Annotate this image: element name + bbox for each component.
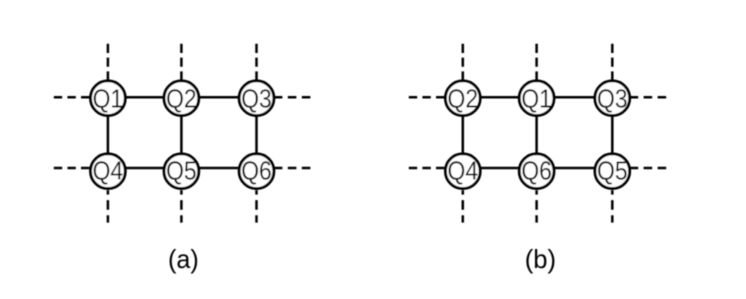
node b:Q1 (qubit circle)	[519, 81, 554, 116]
svg-text:Q4: Q4	[93, 156, 124, 186]
dashed stub below a:Q4	[107, 190, 110, 222]
dashed stub above a:Q2	[180, 44, 183, 81]
svg-text:(b): (b)	[525, 244, 556, 274]
svg-text:Q3: Q3	[597, 84, 628, 114]
node a:Q1 (qubit circle)	[91, 81, 126, 116]
wire b:Q4-Q6	[463, 167, 537, 170]
node a:Q5 (qubit circle)	[164, 154, 199, 189]
svg-text:Q6: Q6	[521, 156, 552, 186]
svg-text:Q2: Q2	[448, 84, 479, 114]
wire a:Q2-Q5	[180, 98, 183, 171]
node b:Q6 (qubit circle)	[519, 154, 554, 189]
svg-text:Q1: Q1	[93, 84, 124, 114]
node b:Q3 (qubit circle)	[595, 81, 630, 116]
dashed stub left of b:Q2	[409, 96, 447, 99]
svg-text:Q5: Q5	[597, 156, 628, 186]
wire a:Q5-Q6	[181, 167, 256, 170]
dashed stub right of a:Q3	[274, 96, 312, 99]
wire b:Q2-Q1	[463, 96, 537, 99]
dashed stub above a:Q1	[107, 44, 110, 81]
dashed stub right of a:Q6	[274, 167, 312, 170]
dashed stub left of a:Q4	[54, 167, 92, 170]
svg-text:Q6: Q6	[241, 156, 272, 186]
svg-text:Q1: Q1	[521, 84, 552, 114]
wire a:Q1-Q4	[107, 98, 110, 171]
dashed stub below a:Q5	[180, 190, 183, 222]
dashed stub above b:Q1	[535, 44, 538, 81]
dashed stub left of a:Q1	[54, 96, 92, 99]
node a:Q6 (qubit circle)	[239, 154, 274, 189]
node b:Q2 (qubit circle)	[445, 81, 480, 116]
wire b:Q2-Q4	[462, 98, 465, 171]
dashed stub above a:Q3	[255, 44, 258, 81]
dashed stub above b:Q2	[462, 44, 465, 81]
node a:Q3 (qubit circle)	[239, 81, 274, 116]
node b:Q5 (qubit circle)	[595, 154, 630, 189]
dashed stub below a:Q6	[255, 190, 258, 222]
wire b:Q1-Q6	[535, 98, 538, 171]
svg-text:Q5: Q5	[166, 156, 197, 186]
dashed stub below b:Q5	[611, 190, 614, 222]
dashed stub right of b:Q5	[630, 167, 668, 170]
node a:Q2 (qubit circle)	[164, 81, 199, 116]
dashed stub below b:Q6	[535, 190, 538, 222]
wire b:Q1-Q3	[537, 96, 613, 99]
wire a:Q1-Q2	[108, 96, 181, 99]
wire b:Q3-Q5	[611, 98, 614, 171]
svg-text:Q3: Q3	[241, 84, 272, 114]
node a:Q4 (qubit circle)	[91, 154, 126, 189]
svg-text:(a): (a)	[168, 244, 199, 274]
dashed stub above b:Q3	[611, 44, 614, 81]
node b:Q4 (qubit circle)	[445, 154, 480, 189]
wire a:Q2-Q3	[181, 96, 256, 99]
dashed stub below b:Q4	[462, 190, 465, 222]
dashed stub left of b:Q4	[409, 167, 447, 170]
dashed stub right of b:Q3	[630, 96, 668, 99]
wire b:Q6-Q5	[537, 167, 613, 170]
svg-text:Q2: Q2	[166, 84, 197, 114]
wire a:Q3-Q6	[255, 98, 258, 171]
wire a:Q4-Q5	[108, 167, 181, 170]
svg-text:Q4: Q4	[448, 156, 479, 186]
